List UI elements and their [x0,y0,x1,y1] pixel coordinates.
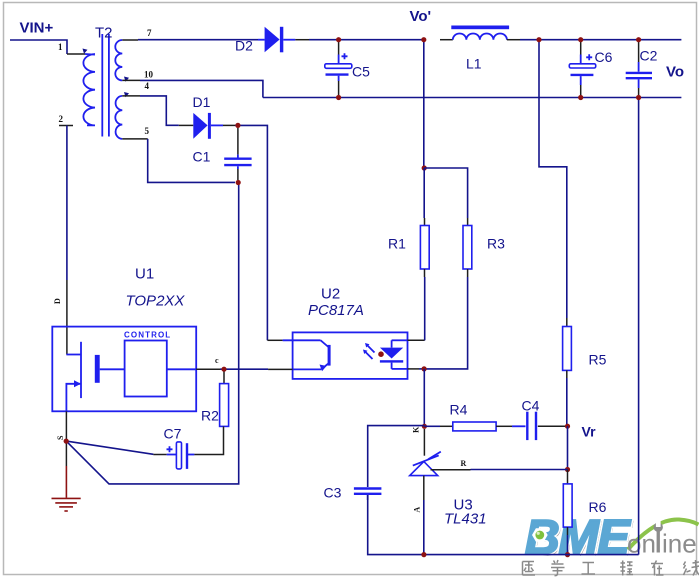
logo online text [627,520,697,559]
wire U2 emitter pin to C node [268,368,321,370]
transformer T2 core [102,34,109,137]
svg-text:CONTROL: CONTROL [124,331,171,340]
wire VIN+ input to T2 pin 1 [10,40,85,54]
transistor MOSFET inside U1 [66,342,124,412]
char 工 [582,563,596,575]
node LED cathode junction [422,366,427,371]
svg-text:C3: C3 [324,485,342,501]
svg-text:C4: C4 [522,398,540,414]
wire LED cathode to node [408,368,425,370]
wire LED anode from R1 [408,277,425,340]
wire U1 C pin [167,368,268,370]
svg-text:TL431: TL431 [444,511,487,528]
wire U2 collector pin [267,339,320,341]
svg-text:4: 4 [145,81,150,91]
char 程 [620,561,633,576]
svg-text:T2: T2 [95,25,113,42]
wire R5 to Vr node [566,378,568,426]
op-amp U1 TOP2XX body [52,327,196,412]
capacitor C7 [167,442,195,469]
node D1 cathode junction [235,123,240,128]
svg-text:c: c [215,356,219,365]
char 医 [523,562,536,576]
wire top rail to R5 [539,40,567,318]
svg-text:C6: C6 [595,49,613,65]
transformer T2 secondary winding pins 7-10 [115,40,122,80]
LED inside U2 [380,340,408,369]
svg-text:2: 2 [59,114,64,124]
wire top rail C5 to L1 [440,39,453,41]
svg-text:R3: R3 [487,236,505,252]
resistor R5 [563,318,572,378]
resistor R2 [220,369,229,428]
svg-text:U2: U2 [321,286,340,303]
svg-text:R4: R4 [450,402,468,418]
svg-text:5: 5 [145,126,150,136]
logo BME [525,512,633,567]
wire D2 to C5 node [295,39,424,41]
capacitor C1 [224,128,251,180]
svg-text:C5: C5 [352,64,370,80]
wire U1 S pin to ground [65,411,67,441]
wire L1 to Vo output rail [507,39,682,41]
svg-text:R6: R6 [589,499,607,515]
node R6 bottom junction [565,552,570,557]
capacitor C6 [569,42,595,96]
svg-text:C1: C1 [193,149,211,165]
transistor phototransistor inside U2 [320,340,331,371]
svg-text:A: A [412,507,421,513]
svg-text:Vo': Vo' [410,8,432,25]
node top rail junctions [336,37,341,42]
svg-text:R2: R2 [201,408,219,424]
node S junction [64,439,69,444]
svg-text:10: 10 [144,70,154,80]
LED emission arrows [363,343,375,359]
wire top rail to R1 R3 [423,40,425,169]
char 在 [651,561,664,576]
node polarity mark pin 10 [124,77,129,82]
svg-text:Vo: Vo [666,64,684,81]
logo green swoosh [628,519,699,549]
wire T2 pin 4 to D1 [122,96,179,125]
wire T2 pin 7 to D2 [122,39,258,41]
wire R3 bottom to LED cathode node [424,277,468,369]
svg-text:D1: D1 [193,94,211,110]
transistor U3 TL431 [410,429,568,555]
svg-text:K: K [412,426,421,433]
node R1 R3 split [422,165,427,170]
node R4 K junction [422,424,427,429]
wire C7 to R2 bottom [194,428,223,455]
wire lower output rail [263,97,682,99]
node Vr [565,424,570,429]
node R5 R6 divider junction [565,467,570,472]
char 学 [551,560,565,576]
svg-text:S: S [56,435,65,440]
wire to R3 top [424,168,467,218]
wire drain lead into U1 [66,280,68,355]
capacitor C5 [325,42,352,96]
wire Vo branch down right side [638,98,640,555]
node C1 bottom junction [236,180,241,185]
char 线 [684,560,699,576]
svg-text:U1: U1 [135,266,154,283]
diode D1 [179,113,235,139]
wire T2 pin 2 [59,126,73,281]
wire cathode node down to R4 node [423,369,425,426]
svg-text:R5: R5 [589,352,607,368]
svg-text:PC817A: PC817A [308,302,364,319]
resistor R3 [463,218,472,277]
Chinese caption 医学工程在线 [523,560,699,576]
svg-text:ine: ine [662,529,697,559]
svg-text:R: R [461,459,467,468]
ground [52,441,81,511]
wire C3 bottom rail [368,495,639,555]
node lower rail junctions [336,95,341,100]
node polarity mark pin 1 [83,49,88,54]
resistor R6 [563,470,572,555]
wire C1 bottom return to source node [66,183,239,484]
capacitor C4 [512,412,565,440]
svg-text:R1: R1 [388,236,406,252]
node marker inside U2 [378,351,384,357]
capacitor C2 [626,42,652,96]
svg-text:7: 7 [147,28,152,38]
resistor R4 [424,422,512,431]
node TL431 anode bottom junction [421,552,426,557]
wire T2 pin 5 to C1 bottom [122,139,235,183]
svg-text:D2: D2 [235,38,253,54]
wrench icon as letter l [654,523,663,532]
wire Vr to divider node [567,426,569,469]
node C pin junction [221,367,226,372]
inductor L1 [451,26,509,40]
svg-text:D: D [53,298,62,304]
svg-text:C2: C2 [640,48,658,64]
wire S node to C7 positive [66,441,167,454]
wire R4 node to C3 [368,426,425,487]
op-amp U2 PC817A body [293,332,408,379]
transformer T2 secondary winding pins 4-5 [115,96,122,139]
resistor R1 [420,168,429,277]
transformer T2 primary winding [83,54,95,125]
node polarity mark pin 4 [124,92,129,97]
svg-text:L1: L1 [466,56,482,72]
diode D2 [258,27,295,53]
svg-text:TOP2XX: TOP2XX [126,293,186,310]
wire D1 cathode node to U2 collector branch [235,125,267,340]
CONTROL block inside U1 [124,331,171,397]
svg-text:C7: C7 [164,426,182,442]
svg-text:1: 1 [58,42,63,52]
capacitor C3 [354,489,382,501]
svg-text:Vr: Vr [582,424,597,440]
svg-text:VIN+: VIN+ [20,20,54,37]
wire T2 pin 10 to lower rail [122,80,263,97]
